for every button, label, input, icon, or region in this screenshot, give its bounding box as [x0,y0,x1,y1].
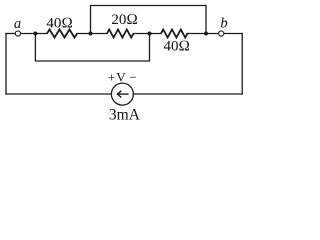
wire: terminal a to R1 [20,33,47,35]
wire: R3 to terminal b [187,33,219,35]
node junction dot J4 [204,32,208,36]
svg-text:20Ω: 20Ω [111,12,138,28]
wire: bottom right segment [133,93,242,95]
node junction dot J2 [89,32,93,36]
current source arrow [117,91,128,98]
svg-text:−: − [129,69,136,84]
wire: right outer vertical [241,34,243,95]
wire: R2 to R3 [134,33,162,35]
wire: top parallel branch [91,6,207,34]
svg-text:3mA: 3mA [109,106,141,123]
wire: left outer vertical [5,34,7,95]
node junction dot J1 [33,32,37,36]
node junction dot J3 [148,32,152,36]
resistor R2 20ohm [107,30,134,38]
resistor R3 40ohm [161,30,188,38]
svg-text:40Ω: 40Ω [46,16,73,32]
resistor R1 40ohm [47,30,77,38]
wire: terminal b to right corner [224,33,243,35]
svg-text:+: + [108,69,115,84]
wire: R1 to R2 [77,33,107,35]
svg-text:V: V [116,69,126,84]
wire: inner bottom parallel branch [35,34,149,62]
terminal b open circle [219,31,224,36]
svg-text:b: b [220,15,227,31]
terminal a open circle [15,31,20,36]
wire: bottom left segment [6,93,111,95]
current source I1 circle [111,83,133,105]
svg-text:a: a [14,16,21,32]
wire: left corner to terminal a [6,33,15,35]
svg-text:40Ω: 40Ω [164,38,191,54]
